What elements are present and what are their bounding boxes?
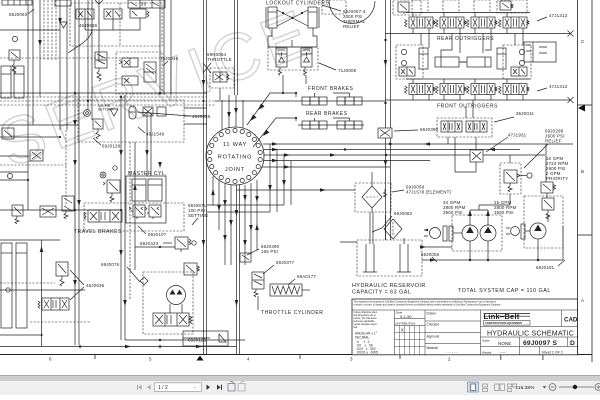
wire	[134, 142, 136, 270]
slider track	[559, 386, 594, 388]
valve 47J1313 front	[405, 79, 436, 100]
valve 69J0423	[175, 237, 196, 252]
wires lockout to check block	[282, 75, 284, 93]
valve 4 cell	[84, 210, 122, 222]
cylinder left column	[1, 66, 24, 98]
leader	[537, 17, 547, 21]
wire main trunk	[385, 0, 387, 240]
leader	[138, 127, 145, 133]
junction	[384, 39, 386, 41]
wire (pilot dashed)	[129, 142, 131, 300]
wire	[206, 0, 208, 355]
next page button	[207, 385, 211, 390]
accumulator 46J0636	[129, 106, 136, 119]
dashed box	[396, 45, 423, 79]
cylinder 1	[132, 179, 146, 201]
wire	[120, 95, 122, 340]
label 69J0871 100 PSI SETTING	[188, 203, 209, 218]
gauge circle	[12, 36, 17, 41]
svg-text:B: B	[581, 169, 584, 174]
wire	[74, 0, 76, 345]
leader	[486, 137, 508, 152]
leader	[138, 226, 146, 234]
two page scroll view	[508, 384, 517, 392]
sheet border bottom	[0, 355, 592, 361]
svg-text:CONSTRUCTION EQUIPMENT: CONSTRUCTION EQUIPMENT	[485, 321, 522, 325]
wire from priority to right pump	[546, 144, 547, 198]
joint right exits	[262, 142, 573, 168]
small box	[157, 107, 166, 116]
wire	[91, 0, 93, 120]
wires down from 36J0011	[448, 100, 473, 172]
suction strainer feet	[363, 244, 411, 272]
top-left pilot manifold dashed box	[70, 3, 162, 46]
svg-text:47J1931: 47J1931	[508, 133, 527, 138]
wire (pilot dashed)	[43, 0, 45, 60]
vertical relief valve	[56, 262, 68, 286]
drawn/checked/approval/material	[427, 312, 459, 355]
last page button	[217, 385, 222, 390]
leader	[319, 63, 336, 70]
svg-text:TRAVEL BRAKES: TRAVEL BRAKES	[74, 229, 122, 235]
valve w spring 1	[129, 205, 149, 219]
brake pack 2	[337, 97, 345, 105]
svg-text:RELIEF: RELIEF	[343, 24, 360, 29]
wire	[0, 209, 121, 211]
junctions	[389, 143, 391, 145]
slider knob	[573, 385, 577, 389]
svg-text:69J0128: 69J0128	[102, 144, 121, 149]
svg-text:46J1549: 46J1549	[146, 132, 165, 137]
wire	[264, 154, 545, 156]
wire	[0, 289, 85, 291]
cylinder 2	[148, 179, 162, 201]
valve in manifold 2	[104, 9, 122, 19]
valve in manifold	[76, 9, 94, 19]
arrow down feeds	[227, 112, 231, 118]
wire (pilot dashed)	[0, 96, 207, 98]
pedal valve	[203, 63, 229, 82]
two page view	[495, 384, 505, 391]
svg-text:JOINT: JOINT	[225, 167, 245, 173]
bottom center marker	[197, 356, 204, 361]
relief valve box	[9, 50, 20, 74]
svg-text:46J0636: 46J0636	[86, 283, 105, 288]
dashed pilot box with valves 70J0045	[116, 52, 162, 94]
wire (pilot dashed)	[55, 0, 57, 60]
check valve	[110, 109, 118, 116]
valve 69J0377	[252, 272, 264, 297]
arrow down	[158, 162, 162, 168]
svg-text:116.38%: 116.38%	[516, 385, 536, 391]
svg-text:HYDRAULIC RESERVOIR: HYDRAULIC RESERVOIR	[352, 283, 426, 289]
return lines into tank	[370, 212, 404, 244]
svg-text:4: 4	[247, 357, 250, 362]
wire	[0, 334, 40, 336]
manifold wires	[85, 18, 140, 30]
leader	[28, 9, 34, 14]
wire drop to orifice	[475, 137, 477, 150]
wire stub	[135, 246, 175, 248]
gauge port circle	[527, 173, 532, 178]
arrows left (return)	[424, 142, 430, 145]
wire (pilot dashed)	[0, 104, 215, 106]
wire	[264, 149, 520, 151]
svg-text:REAR BRAKES: REAR BRAKES	[306, 111, 348, 117]
wire	[234, 0, 236, 95]
dropdown arrow	[543, 386, 547, 389]
svg-text:46J0636: 46J0636	[79, 23, 98, 28]
drain plug diamond	[140, 277, 148, 285]
svg-text:Scale: Scale	[482, 339, 490, 343]
drops right of joint	[207, 144, 291, 212]
wire	[125, 339, 245, 341]
leader	[394, 130, 418, 131]
shaft coupling	[443, 226, 462, 241]
coupling	[521, 224, 530, 239]
distribution grid	[395, 326, 426, 355]
junction	[79, 345, 81, 347]
svg-text:Material: Material	[427, 346, 439, 350]
svg-text:70J0045: 70J0045	[160, 56, 179, 61]
svg-text:Drawn: Drawn	[427, 312, 436, 316]
lockout check block 71J0008	[268, 47, 318, 76]
small check	[60, 22, 67, 28]
relief valve above	[541, 182, 556, 219]
svg-text:fied.: fied.	[354, 327, 359, 329]
svg-text:69J0076: 69J0076	[101, 262, 120, 267]
top edge valve row	[128, 0, 165, 8]
valve 47J1313	[467, 13, 498, 34]
leader	[558, 260, 565, 266]
manifold yoke	[268, 28, 317, 47]
leader	[137, 112, 190, 116]
svg-text:Weight: Weight	[482, 351, 491, 355]
svg-text:36J0011: 36J0011	[516, 111, 534, 116]
wire bottom return	[0, 346, 237, 348]
svg-text:69J0423: 69J0423	[140, 241, 159, 246]
svg-text:FRONT OUTRIGGERS: FRONT OUTRIGGERS	[437, 104, 498, 110]
check valve bottom left	[6, 288, 10, 292]
svg-text:Approval: Approval	[427, 335, 440, 339]
arrow	[145, 150, 149, 156]
right edge center marker	[578, 105, 585, 112]
svg-text:47J1313: 47J1313	[549, 13, 568, 18]
svg-text:11 WAY: 11 WAY	[223, 142, 247, 148]
arrow up on x135	[133, 184, 137, 190]
svg-text:THROTTLE CYLINDER: THROTTLE CYLINDER	[261, 310, 323, 316]
svg-text:THROTTLE: THROTTLE	[207, 57, 232, 62]
title block outline	[352, 299, 578, 355]
valve 47J1313	[436, 13, 467, 34]
svg-text:69J0093: 69J0093	[9, 12, 28, 17]
svg-text:TOTAL SYSTEM CAP = 110 GAL: TOTAL SYSTEM CAP = 110 GAL	[458, 288, 551, 294]
svg-text:ROTATING: ROTATING	[218, 155, 252, 161]
extra arrows on trunks	[73, 60, 387, 306]
legal text	[354, 301, 502, 307]
svg-text:1 / 2: 1 / 2	[158, 385, 168, 391]
leader	[127, 267, 140, 282]
wire	[87, 0, 89, 110]
svg-text:69J0107: 69J0107	[148, 232, 167, 237]
single page view (selected)	[468, 382, 479, 392]
bus wire	[386, 33, 572, 35]
port circles	[208, 128, 263, 183]
wire	[263, 143, 573, 145]
brake pack 1	[302, 97, 310, 105]
leader	[247, 249, 259, 255]
leader	[322, 5, 341, 11]
svg-text:----: ----	[500, 349, 506, 354]
steering pump circle	[430, 228, 441, 239]
motor wires	[169, 304, 171, 313]
wire	[390, 0, 392, 215]
svg-text:X: X	[401, 328, 404, 333]
valve small	[511, 67, 527, 76]
arrows down drops	[223, 200, 227, 206]
wire	[163, 0, 165, 95]
leader	[524, 144, 548, 168]
wire to rear brakes	[253, 118, 364, 147]
leader	[163, 242, 172, 244]
wire	[41, 240, 43, 347]
pilot check circles	[401, 49, 406, 54]
arrows right	[272, 142, 278, 145]
watermark SERVICE	[0, 0, 324, 181]
pilot caps dashed	[322, 0, 346, 14]
gauge w/ring	[84, 110, 91, 117]
svg-text:A: A	[581, 298, 584, 303]
svg-text:DISTRIBUTION: DISTRIBUTION	[396, 322, 416, 326]
wires cluster to joint	[184, 107, 207, 109]
suction line	[422, 226, 563, 260]
junctions	[282, 12, 284, 14]
svg-text:69J0125: 69J0125	[188, 338, 207, 343]
svg-text:46J0636: 46J0636	[192, 114, 211, 119]
manifold top rail	[406, 12, 530, 14]
leader	[537, 88, 547, 91]
page number box	[155, 383, 202, 392]
horizontal cylinder	[460, 57, 491, 67]
date / distribution	[396, 311, 416, 326]
zone numbers	[49, 357, 451, 362]
wire vert x258	[257, 296, 259, 310]
svg-text:3500 PSI: 3500 PSI	[443, 210, 463, 215]
orifice check 47J1931	[470, 150, 483, 162]
svg-text:This drawing is the property o: This drawing is the property of Link-Bel…	[354, 301, 497, 304]
wire	[0, 155, 28, 157]
sheet border right	[578, 0, 593, 362]
wire	[237, 0, 239, 95]
outrigger pilot block right	[524, 42, 556, 62]
svg-text:47J1313: 47J1313	[549, 84, 568, 89]
cross wires	[277, 10, 308, 26]
arrow down on x75	[73, 160, 77, 166]
arrow	[268, 185, 272, 191]
label 10 GPM PRIORITY	[546, 156, 568, 181]
svg-text:CAPACITY = 63 GAL: CAPACITY = 63 GAL	[352, 290, 411, 296]
cylinder 2	[308, 7, 319, 28]
svg-text:3: 3	[350, 357, 353, 362]
check/filter 2	[301, 48, 312, 76]
Link-Belt logo	[484, 312, 531, 325]
junction	[159, 345, 161, 347]
wire	[98, 0, 100, 60]
pump 1	[462, 225, 478, 241]
svg-text:D: D	[570, 340, 575, 347]
svg-text:in whole or in part, of design: in whole or in part, of design and detai…	[354, 304, 502, 307]
svg-text:NONE: NONE	[498, 341, 511, 346]
rotate icon 1	[228, 381, 235, 391]
wire trunk bottom to reservoir	[386, 215, 391, 240]
valve 47J1313	[499, 13, 530, 34]
label 69J0490 165 PSI	[261, 244, 280, 254]
vertical cylinder	[497, 48, 506, 69]
wire	[239, 185, 241, 355]
label 25 GPM	[494, 200, 516, 215]
svg-text:C: C	[581, 39, 585, 44]
leader	[372, 216, 392, 232]
svg-text:DECIMAL: DECIMAL	[355, 336, 369, 340]
brake pack 1	[302, 121, 310, 129]
svg-text:6: 6	[49, 357, 52, 362]
svg-text:LOCKOUT CYLINDERS: LOCKOUT CYLINDERS	[266, 1, 330, 7]
motor circle	[167, 286, 186, 305]
wire	[124, 95, 126, 340]
svg-text:71J0008: 71J0008	[338, 68, 357, 73]
svg-text:PRIORITY: PRIORITY	[546, 176, 568, 181]
wire	[39, 0, 41, 97]
check/filter 1	[276, 48, 287, 76]
wire from joint to filter	[237, 189, 356, 191]
orifice box left	[40, 206, 56, 217]
svg-text:SETTING: SETTING	[188, 213, 209, 218]
dashed box travel brakes	[84, 203, 184, 231]
wire	[0, 179, 28, 181]
svg-text:CAD: CAD	[564, 317, 578, 324]
valve 47J1313 front	[436, 79, 467, 100]
continuous view	[483, 384, 488, 392]
svg-text:RELIEF: RELIEF	[545, 139, 562, 144]
wire	[32, 0, 34, 125]
dashed vertical	[65, 130, 67, 206]
thermal relief valve top right	[393, 0, 421, 15]
svg-text:------: ------	[446, 351, 458, 355]
valve 46J0636 (top)	[95, 52, 107, 81]
svg-text:REAR OUTRIGGERS: REAR OUTRIGGERS	[437, 36, 494, 42]
circle port	[511, 227, 520, 236]
svg-text:69J0056: 69J0056	[421, 252, 440, 257]
arrow down on x121	[119, 250, 123, 256]
leader	[432, 257, 437, 262]
svg-text:69J0082: 69J0082	[394, 211, 413, 216]
cluster wires	[421, 34, 523, 58]
svg-text:unless otherwise speci-: unless otherwise speci-	[354, 323, 378, 326]
leader	[68, 29, 92, 53]
return line into tank left	[340, 241, 357, 243]
gauge circles above master cyl	[100, 172, 106, 178]
charge valve 69J0871	[103, 180, 120, 202]
extra left components	[0, 164, 66, 166]
junction dots buses	[27, 92, 205, 211]
svg-text:69J0377: 69J0377	[276, 260, 295, 265]
arrow	[196, 345, 202, 348]
CAD box	[562, 310, 578, 327]
zoom out circle	[549, 384, 556, 391]
joint bottom drops	[212, 176, 214, 205]
wire	[0, 136, 60, 138]
left spring valve	[62, 196, 74, 219]
valve box 69J0125 bottom	[183, 331, 228, 346]
wire	[203, 0, 205, 355]
wire	[0, 124, 78, 126]
svg-text:3500 PSI: 3500 PSI	[494, 210, 514, 215]
pump 2	[480, 225, 496, 241]
pdf viewer toolbar	[0, 381, 600, 395]
relief valve left	[12, 205, 23, 224]
wire	[0, 239, 60, 241]
svg-text:Checked: Checked	[427, 323, 440, 327]
orifice 46J1549	[143, 107, 153, 116]
wire (pilot dashed)	[47, 0, 49, 60]
pump	[530, 223, 546, 239]
leader	[494, 117, 514, 122]
svg-text:5: 5	[149, 357, 152, 362]
pilot check circles	[519, 49, 524, 54]
leader	[70, 270, 84, 300]
dashed box	[503, 45, 531, 79]
directional valve 4 cell	[153, 313, 192, 326]
svg-text:below are applicable: below are applicable	[354, 320, 376, 323]
vertical cylinder	[419, 48, 428, 69]
svg-text:fied dimensions are in: fied dimensions are in	[354, 314, 377, 317]
valve 47J1313 front	[499, 79, 530, 100]
valve w spring 2	[145, 205, 161, 219]
wire	[262, 166, 390, 168]
wire (pilot dashed)	[51, 0, 53, 60]
wires priority area	[509, 155, 511, 205]
valve 47J1313	[405, 13, 436, 34]
more drop arrows	[211, 189, 259, 246]
small comp 69J0490	[240, 253, 251, 262]
label 34 GPM	[443, 200, 465, 215]
wire	[78, 0, 80, 345]
svg-text:2: 2	[448, 357, 451, 362]
svg-text:69J0390: 69J0390	[420, 127, 439, 132]
valve in manifold 3	[130, 9, 149, 18]
first page button (disabled)	[137, 385, 142, 390]
horizontal cylinder	[435, 57, 466, 67]
filter diamond	[362, 186, 382, 208]
relief w/ spring	[93, 119, 103, 139]
svg-text:47J1578 (ELEMENT): 47J1578 (ELEMENT)	[406, 190, 451, 195]
leader	[192, 218, 198, 225]
wire verticals into master area	[146, 113, 148, 176]
svg-text:Unless otherwise speci-: Unless otherwise speci-	[354, 311, 378, 314]
svg-text:HYDRAULIC SCHEMATIC: HYDRAULIC SCHEMATIC	[487, 329, 574, 337]
wire	[0, 92, 207, 94]
valve	[119, 58, 156, 85]
brake pack 2	[337, 121, 345, 129]
wire (pilot dashed)	[0, 100, 215, 102]
orifice 69J0390 on trunk	[378, 128, 392, 138]
arrow down on x40	[38, 40, 42, 46]
valve small	[399, 67, 415, 76]
gauge	[7, 173, 12, 178]
leader	[93, 138, 101, 145]
wire	[159, 0, 161, 95]
wire	[0, 29, 60, 31]
